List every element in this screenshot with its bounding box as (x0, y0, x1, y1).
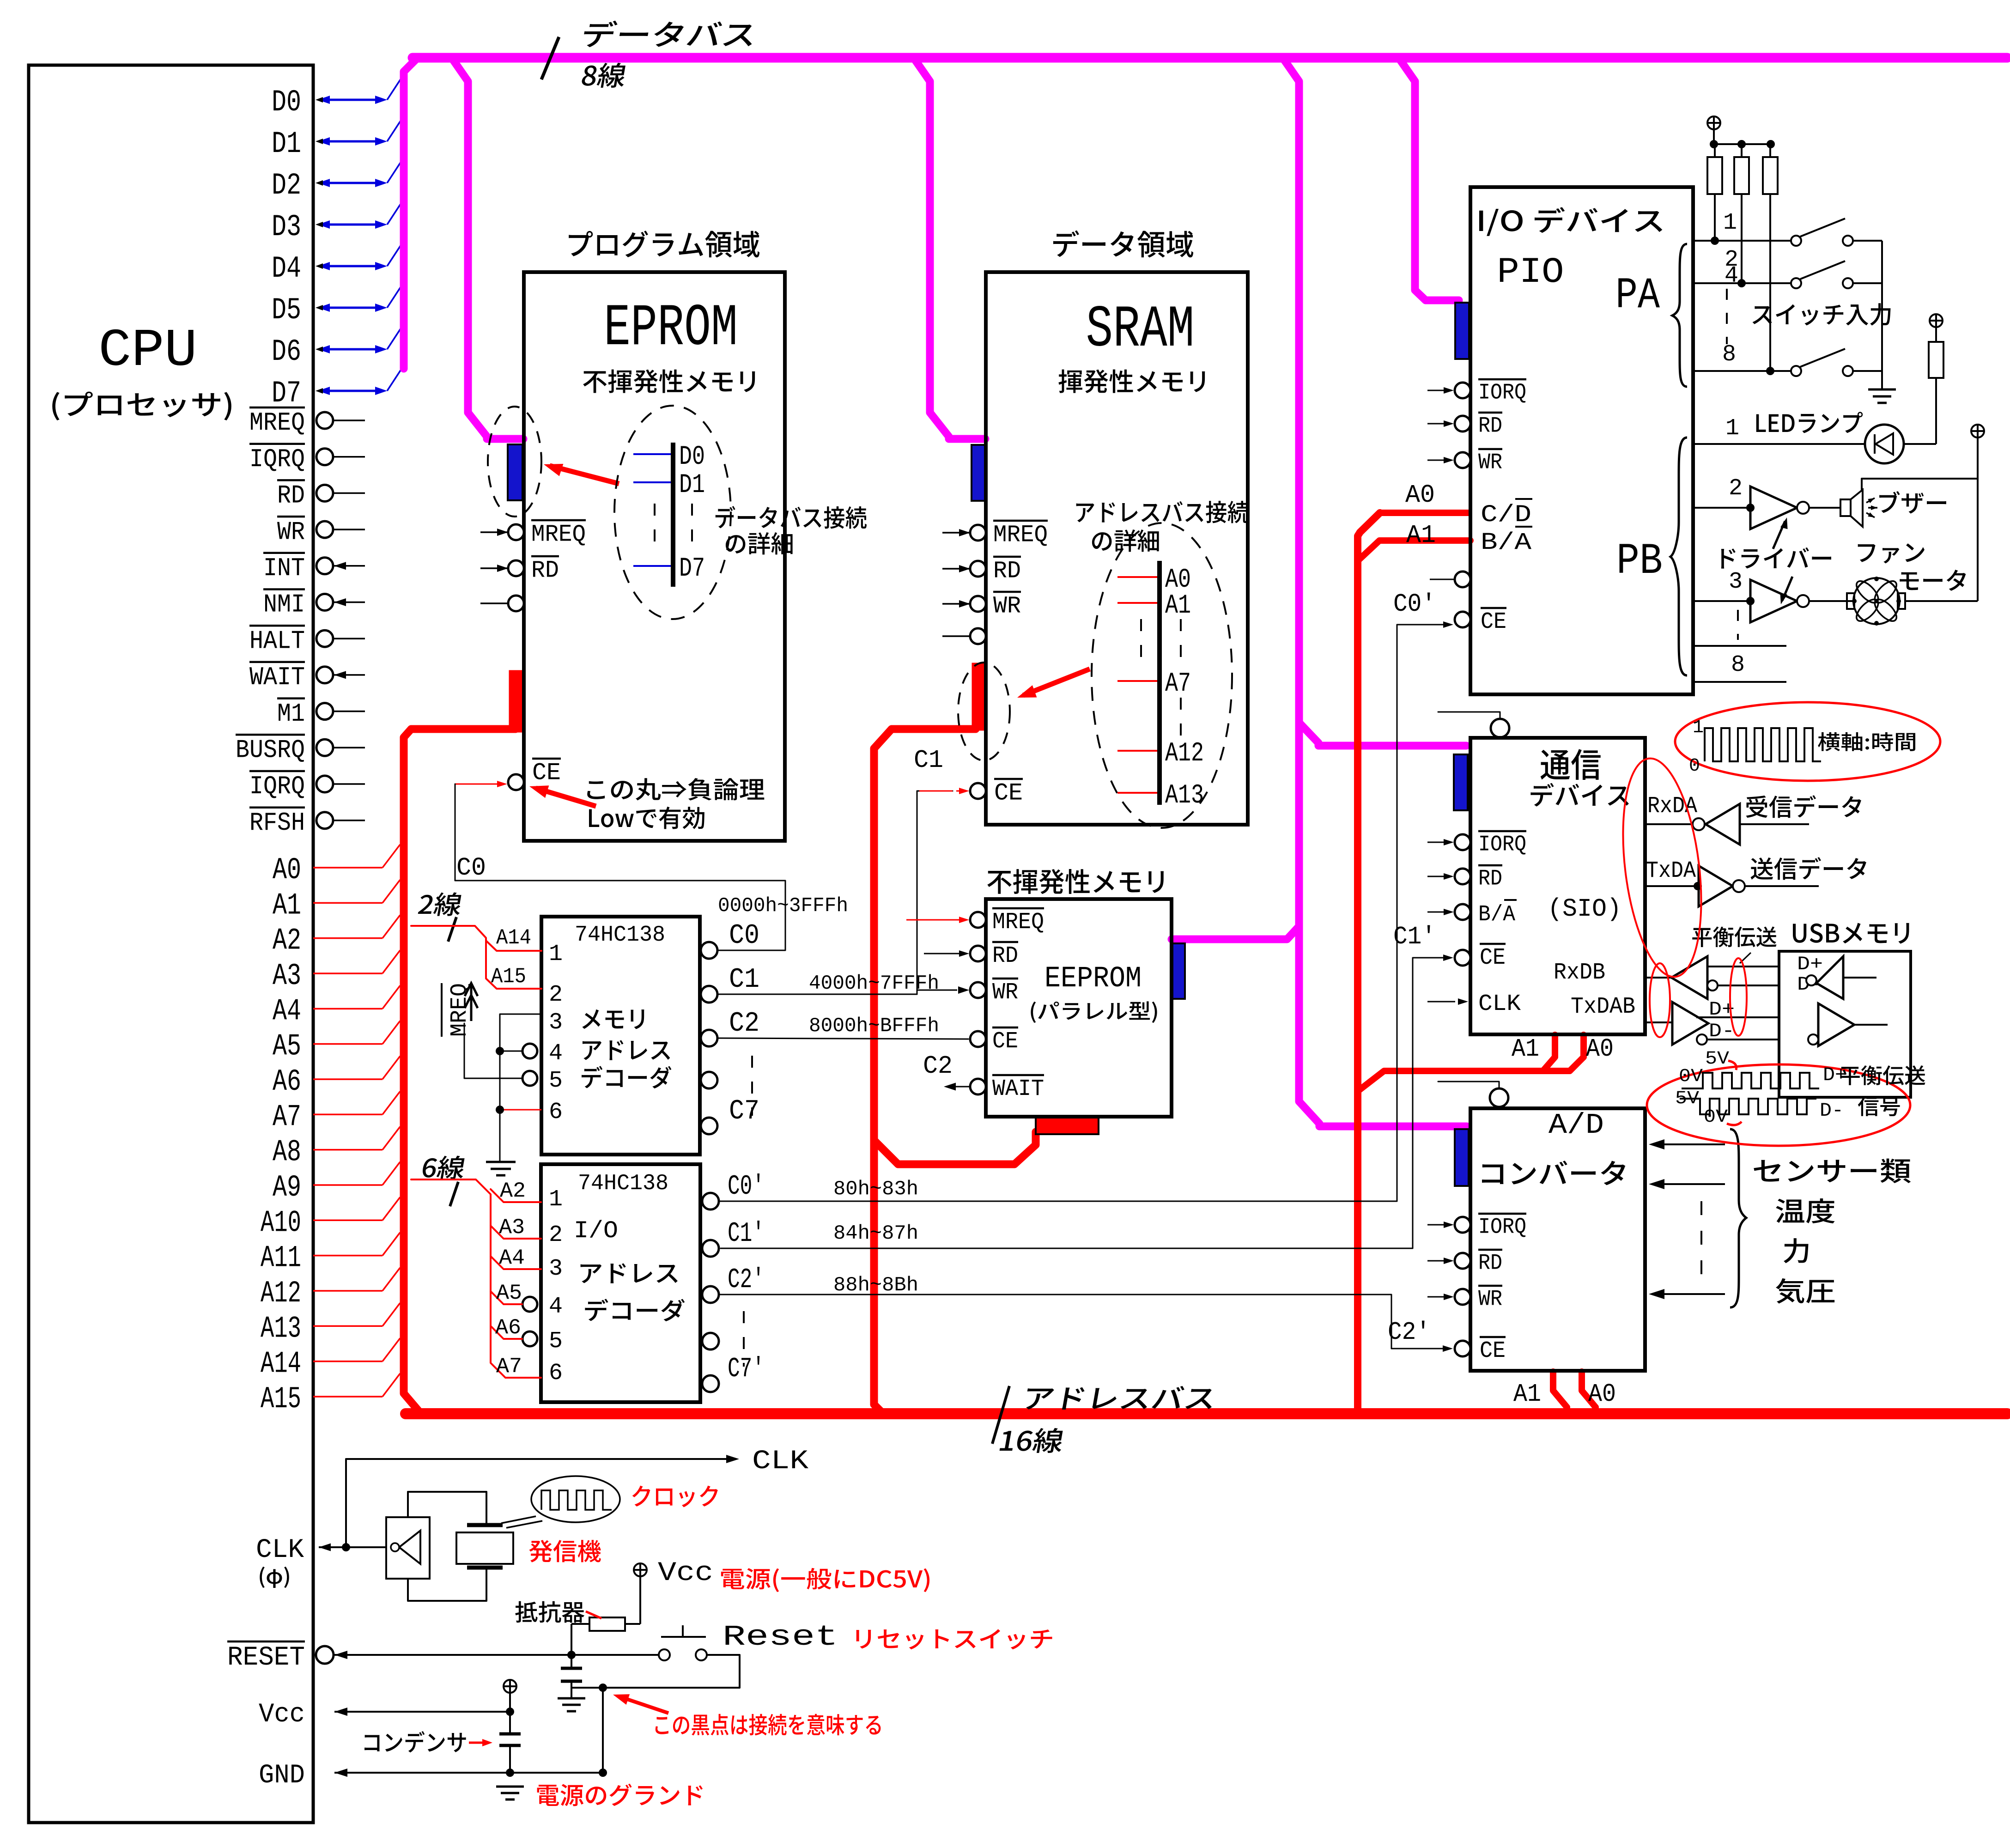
svg-text:A6: A6 (495, 1316, 521, 1340)
svg-text:1: 1 (1693, 717, 1704, 738)
svg-text:WAIT: WAIT (992, 1076, 1044, 1102)
svg-text:A12: A12 (1165, 739, 1204, 769)
svg-text:6: 6 (549, 1099, 563, 1125)
svg-text:RD: RD (531, 557, 559, 584)
svg-text:D1: D1 (679, 470, 705, 500)
svg-text:CE: CE (992, 1028, 1018, 1055)
svg-text:C2': C2' (728, 1264, 765, 1296)
svg-text:CLK: CLK (752, 1447, 808, 1477)
svg-text:A1: A1 (1512, 1034, 1539, 1064)
svg-text:D1: D1 (272, 127, 301, 161)
svg-text:A5: A5 (273, 1029, 301, 1064)
svg-text:88h~8Bh: 88h~8Bh (833, 1274, 918, 1297)
svg-text:CE: CE (1481, 609, 1506, 635)
svg-text:RxDB: RxDB (1554, 960, 1605, 986)
svg-text:0V: 0V (1679, 1066, 1703, 1087)
svg-text:D2: D2 (272, 168, 301, 203)
svg-text:CE: CE (1480, 945, 1506, 971)
svg-text:RD: RD (992, 943, 1018, 969)
svg-text:C1': C1' (728, 1218, 765, 1250)
svg-text:SRAM: SRAM (1086, 297, 1195, 364)
svg-text:A0: A0 (1405, 480, 1435, 510)
svg-text:A15: A15 (261, 1382, 301, 1416)
svg-text:A9: A9 (273, 1170, 301, 1205)
svg-text:A2: A2 (500, 1179, 526, 1203)
svg-text:A13: A13 (261, 1311, 301, 1346)
svg-text:C2: C2 (923, 1052, 953, 1081)
svg-text:INT: INT (263, 553, 305, 583)
svg-text:MREQ: MREQ (993, 522, 1048, 549)
svg-text:A6: A6 (273, 1064, 301, 1099)
svg-text:RD: RD (993, 558, 1021, 585)
svg-text:A3: A3 (273, 959, 301, 993)
svg-text:84h~87h: 84h~87h (833, 1222, 918, 1245)
svg-text:C1: C1 (914, 746, 943, 775)
svg-text:C0': C0' (1393, 590, 1436, 619)
svg-text:Reset: Reset (723, 1621, 838, 1653)
svg-text:EPROM: EPROM (604, 295, 738, 362)
svg-text:WR: WR (277, 517, 305, 547)
svg-text:B/A: B/A (1478, 902, 1515, 927)
svg-text:C1: C1 (729, 964, 759, 996)
svg-text:CLK: CLK (256, 1535, 304, 1565)
svg-text:A11: A11 (261, 1241, 301, 1276)
svg-text:RESET: RESET (227, 1643, 305, 1673)
svg-text:PB: PB (1616, 536, 1663, 586)
svg-text:A15: A15 (491, 965, 526, 989)
svg-text:IORQ: IORQ (1478, 380, 1526, 405)
svg-text:C/D: C/D (1481, 501, 1531, 529)
svg-text:0000h~3FFFh: 0000h~3FFFh (718, 894, 848, 918)
svg-text:1: 1 (549, 1186, 563, 1213)
svg-text:EEPROM: EEPROM (1044, 962, 1142, 996)
svg-text:D0: D0 (272, 85, 301, 120)
svg-text:D+: D+ (1797, 953, 1823, 975)
svg-text:GND: GND (259, 1761, 305, 1791)
svg-text:2: 2 (549, 982, 563, 1008)
svg-text:PIO: PIO (1497, 252, 1564, 293)
svg-text:C7: C7 (729, 1096, 759, 1127)
svg-text:IQRQ: IQRQ (249, 444, 305, 474)
svg-text:0: 0 (1689, 756, 1700, 777)
svg-text:WR: WR (992, 979, 1018, 1006)
svg-text:CE: CE (1480, 1338, 1506, 1364)
svg-text:A3: A3 (499, 1216, 525, 1240)
svg-text:A0: A0 (273, 853, 301, 888)
svg-text:WAIT: WAIT (249, 663, 305, 692)
svg-text:CE: CE (994, 780, 1023, 807)
svg-text:D5: D5 (272, 293, 301, 328)
svg-text:A0: A0 (1586, 1034, 1614, 1064)
svg-text:D4: D4 (272, 251, 301, 286)
svg-text:A10: A10 (261, 1205, 301, 1240)
svg-text:RD: RD (1478, 866, 1502, 891)
svg-text:3: 3 (549, 1009, 563, 1036)
svg-text:A1: A1 (273, 888, 301, 923)
svg-text:4: 4 (1725, 263, 1738, 289)
svg-text:RD: RD (1478, 413, 1502, 438)
svg-text:IQRQ: IQRQ (249, 772, 305, 801)
svg-text:6: 6 (549, 1360, 563, 1386)
svg-text:C2: C2 (729, 1008, 759, 1039)
svg-text:RFSH: RFSH (249, 808, 305, 838)
svg-text:A0: A0 (1588, 1380, 1616, 1409)
svg-text:NMI: NMI (263, 590, 305, 620)
svg-text:IORQ: IORQ (1478, 832, 1526, 857)
svg-text:8: 8 (1722, 341, 1736, 368)
svg-text:A4: A4 (273, 994, 301, 1028)
svg-text:CE: CE (532, 760, 561, 787)
svg-text:4: 4 (549, 1040, 563, 1067)
svg-text:A14: A14 (496, 926, 531, 950)
svg-text:C2': C2' (1388, 1318, 1430, 1347)
svg-text:CLK: CLK (1478, 991, 1521, 1017)
svg-text:PA: PA (1615, 271, 1660, 321)
svg-text:CPU: CPU (98, 321, 197, 381)
svg-text:WR: WR (993, 593, 1021, 620)
svg-text:4000h~7FFFh: 4000h~7FFFh (809, 972, 939, 995)
svg-text:Vcc: Vcc (658, 1558, 713, 1588)
svg-text:D7: D7 (679, 554, 705, 584)
svg-text:A4: A4 (499, 1246, 525, 1270)
svg-text:D-: D- (1709, 1020, 1735, 1042)
svg-text:TxDA: TxDA (1646, 858, 1696, 884)
svg-text:74HC138: 74HC138 (578, 1171, 668, 1196)
svg-text:A7: A7 (1165, 669, 1191, 699)
svg-text:A/D: A/D (1548, 1109, 1604, 1142)
svg-text:TxDAB: TxDAB (1571, 994, 1635, 1020)
svg-text:D-: D- (1820, 1100, 1844, 1122)
svg-text:80h~83h: 80h~83h (833, 1178, 918, 1201)
svg-text:IORQ: IORQ (1478, 1215, 1526, 1240)
svg-text:C1': C1' (1393, 922, 1436, 951)
svg-text:C0: C0 (456, 853, 486, 882)
svg-text:5: 5 (549, 1328, 563, 1355)
svg-text:D6: D6 (272, 334, 301, 369)
svg-text:3: 3 (549, 1256, 563, 1282)
svg-text:74HC138: 74HC138 (575, 923, 665, 948)
svg-text:I/O: I/O (574, 1217, 618, 1245)
svg-text:B/A: B/A (1481, 529, 1532, 556)
svg-text:1: 1 (1725, 415, 1739, 442)
svg-text:8: 8 (1731, 652, 1745, 678)
svg-text:RD: RD (1478, 1251, 1502, 1276)
svg-text:WR: WR (1478, 1287, 1502, 1312)
svg-text:D3: D3 (272, 210, 301, 244)
svg-text:A8: A8 (273, 1135, 301, 1170)
svg-text:WR: WR (1478, 450, 1502, 475)
svg-text:1: 1 (549, 941, 563, 967)
svg-text:A13: A13 (1165, 781, 1204, 811)
svg-text:5V: 5V (1705, 1049, 1729, 1070)
svg-text:C0: C0 (729, 920, 759, 952)
svg-text:C7': C7' (728, 1354, 765, 1385)
svg-text:A2: A2 (273, 924, 301, 958)
svg-text:M1: M1 (277, 699, 305, 729)
svg-text:MREQ: MREQ (447, 983, 473, 1037)
svg-text:8000h~BFFFh: 8000h~BFFFh (809, 1015, 939, 1038)
svg-text:0V: 0V (1704, 1107, 1728, 1128)
svg-text:MREQ: MREQ (249, 408, 305, 438)
svg-text:1: 1 (1723, 210, 1737, 236)
svg-text:2: 2 (1729, 475, 1743, 502)
svg-text:RD: RD (277, 481, 305, 511)
svg-text:(SIO): (SIO) (1548, 894, 1621, 924)
svg-text:A1: A1 (1513, 1380, 1541, 1409)
svg-text:D7: D7 (272, 376, 301, 411)
svg-text:HALT: HALT (249, 626, 305, 656)
svg-text:A1: A1 (1165, 591, 1191, 621)
svg-text:MREQ: MREQ (992, 909, 1044, 936)
svg-text:A5: A5 (496, 1281, 522, 1305)
svg-text:A12: A12 (261, 1276, 301, 1311)
svg-text:2: 2 (549, 1222, 563, 1248)
svg-text:A7: A7 (273, 1100, 301, 1134)
svg-text:Vcc: Vcc (259, 1700, 305, 1730)
svg-text:5: 5 (549, 1068, 563, 1094)
svg-text:A14: A14 (261, 1347, 301, 1381)
svg-text:MREQ: MREQ (531, 521, 586, 548)
svg-text:C0': C0' (728, 1171, 765, 1203)
svg-text:A1: A1 (1406, 521, 1436, 550)
svg-text:BUSRQ: BUSRQ (236, 735, 305, 765)
svg-text:A7: A7 (496, 1355, 522, 1379)
svg-text:3: 3 (1729, 569, 1743, 595)
svg-text:D0: D0 (679, 442, 705, 472)
svg-text:4: 4 (549, 1294, 563, 1320)
